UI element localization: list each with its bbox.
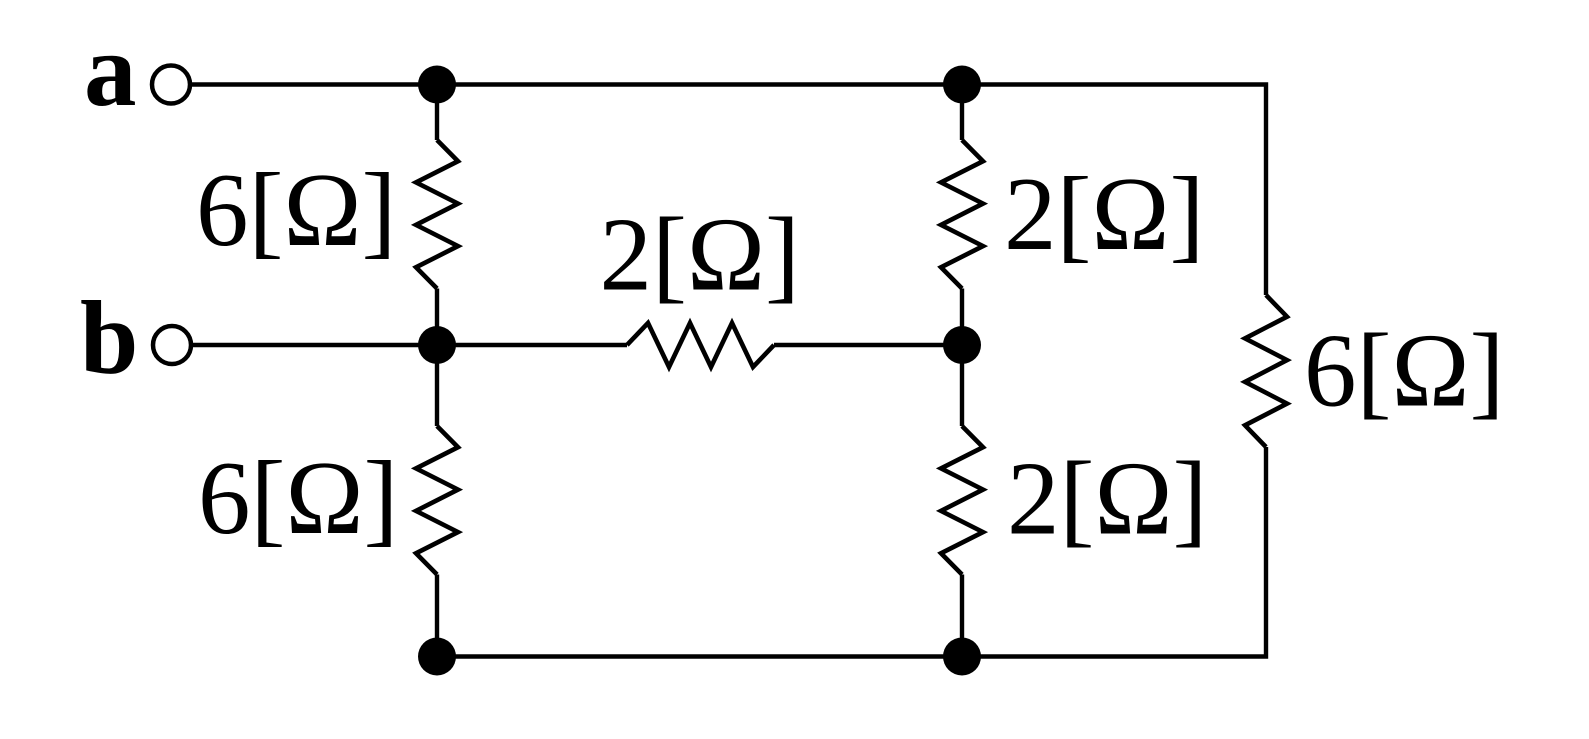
resistor R1 6[ohm] top left zigzag: [416, 140, 458, 289]
node B2: [943, 326, 981, 364]
node C2: [943, 638, 981, 676]
wire resistor R4 to node C2: [960, 575, 964, 657]
resistor R2 6[ohm] bottom left zigzag: [416, 426, 458, 575]
svg-text:2[Ω]: 2[Ω]: [1004, 155, 1204, 272]
svg-text:6[Ω]: 6[Ω]: [198, 439, 398, 556]
wire node A1 down to resistor R1: [435, 85, 439, 141]
svg-text:b: b: [80, 279, 138, 396]
node A1: [418, 66, 456, 104]
terminal b (open circle): [153, 326, 191, 364]
svg-text:2[Ω]: 2[Ω]: [600, 196, 800, 313]
wire resistor R1 to node B1: [435, 289, 439, 346]
svg-text:a: a: [84, 11, 137, 128]
wire resistor R2 to node C1: [435, 575, 439, 657]
wire resistor R3 to node B2: [960, 289, 964, 346]
wire resistor R5 to node B2: [774, 343, 962, 347]
node B1: [418, 326, 456, 364]
svg-text:2[Ω]: 2[Ω]: [1007, 440, 1207, 557]
resistor R6 6[ohm] far right zigzag: [1245, 295, 1287, 447]
svg-text:6[Ω]: 6[Ω]: [196, 151, 396, 268]
wire top right: node A2 to right corner, down to resistor R6: [962, 85, 1266, 296]
terminal a (open circle): [152, 66, 190, 104]
wire node B1 to resistor R5: [437, 343, 627, 347]
resistor R3 2[ohm] top right zigzag: [941, 140, 983, 289]
wire node A2 down to resistor R3: [960, 85, 964, 141]
resistor R4 2[ohm] bottom right zigzag: [941, 426, 983, 575]
wire node B1 down to resistor R2: [435, 345, 439, 426]
wire b terminal to node B1: [192, 343, 438, 347]
resistor R5 2[ohm] middle horizontal zigzag: [627, 323, 774, 367]
wire bottom right: resistor R6 to corner, left to node C2: [962, 447, 1266, 657]
wire node B2 down to resistor R4: [960, 345, 964, 426]
wire bottom: node C2 to node C1: [437, 654, 962, 658]
node C1: [418, 638, 456, 676]
node A2: [943, 66, 981, 104]
wire a terminal to node A1: [191, 82, 438, 86]
svg-text:6[Ω]: 6[Ω]: [1304, 312, 1504, 429]
wire top: node A1 to node A2: [437, 82, 962, 86]
